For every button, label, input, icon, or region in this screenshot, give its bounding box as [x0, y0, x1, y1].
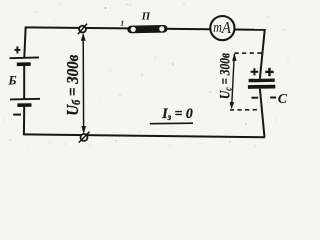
battery Б cell 1 plates	[10, 57, 40, 64]
svg-text:Uс = 300в: Uс = 300в	[217, 53, 234, 99]
wire right branch upper	[260, 29, 265, 79]
capacitor plus mark left	[251, 68, 259, 75]
current underline	[150, 122, 193, 125]
paper noise speckles	[3, 3, 289, 147]
battery minus mark	[13, 114, 21, 116]
battery Б cell 2 plates	[10, 99, 40, 105]
svg-text:A: A	[221, 18, 232, 37]
switch П blade	[127, 25, 167, 33]
svg-text:C: C	[278, 92, 288, 107]
voltage arrow U6	[81, 33, 86, 134]
svg-text:П: П	[141, 11, 151, 23]
svg-text:Iз = 0: Iз = 0	[161, 106, 192, 123]
capacitor minus mark left	[252, 97, 259, 99]
battery plus mark	[14, 46, 20, 53]
capacitor plus mark right	[265, 68, 274, 76]
svg-text:1: 1	[120, 18, 124, 27]
wire top	[25, 27, 265, 29]
capacitor C plates	[248, 80, 275, 87]
leader dashed top	[235, 52, 265, 54]
node terminal top	[78, 24, 87, 34]
wire below capacitor	[260, 89, 265, 138]
meter mA	[210, 16, 234, 40]
svg-text:Б: Б	[7, 73, 16, 88]
wire between battery cells	[23, 66, 25, 99]
node terminal bottom	[79, 132, 90, 143]
svg-text:m: m	[213, 20, 222, 36]
voltage arrow Uc	[230, 53, 237, 109]
svg-text:Uб = 300в: Uб = 300в	[63, 54, 83, 115]
capacitor minus mark right	[270, 97, 276, 99]
leader dashed bottom	[230, 109, 260, 111]
wire left branch	[24, 27, 25, 58]
wire bottom	[24, 134, 265, 137]
wire below battery	[23, 107, 25, 136]
